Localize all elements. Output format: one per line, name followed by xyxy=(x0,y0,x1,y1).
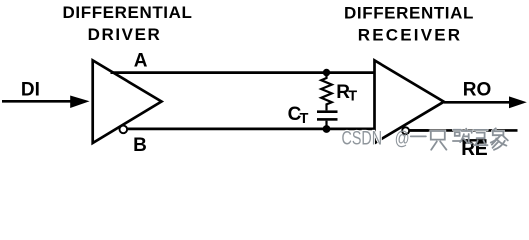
label RE (overlined) xyxy=(462,139,486,141)
svg-text:@: @ xyxy=(395,129,410,150)
svg-text:T: T xyxy=(348,88,357,104)
wire A (top line) xyxy=(111,71,375,74)
title: DIFFERENTIAL RECEIVER xyxy=(344,3,474,44)
driver U1 (triangle) xyxy=(93,60,162,143)
watermark: gray ink layer xyxy=(342,128,508,150)
wire RO output xyxy=(444,101,510,104)
svg-text:DI: DI xyxy=(21,79,40,100)
svg-text:T: T xyxy=(300,111,309,127)
arrowhead DI xyxy=(70,96,89,109)
svg-text:DIFFERENTIAL: DIFFERENTIAL xyxy=(63,3,193,22)
node junction dot on B xyxy=(323,125,331,133)
svg-text:A: A xyxy=(134,50,148,71)
arrowhead RO xyxy=(509,96,527,108)
watermark: white halo layer xyxy=(342,128,508,150)
wire cap to B node xyxy=(325,121,327,129)
title: DIFFERENTIAL DRIVER xyxy=(63,3,193,44)
wire DI input xyxy=(2,100,72,103)
label RE overline (redrawn) xyxy=(462,139,486,141)
svg-text:RO: RO xyxy=(463,79,492,100)
capacitor CT plates xyxy=(317,110,338,113)
node junction dot on A xyxy=(323,69,330,76)
wire RE enable xyxy=(409,129,518,132)
bubble on driver output B xyxy=(120,126,128,134)
svg-text:DIFFERENTIAL: DIFFERENTIAL xyxy=(344,3,474,22)
resistor RT (zigzag) xyxy=(321,73,332,111)
wire B (bottom line) xyxy=(127,127,374,130)
svg-text:DRIVER: DRIVER xyxy=(88,25,162,44)
receiver U2 (triangle) xyxy=(375,60,444,143)
svg-text:CSDN: CSDN xyxy=(342,129,383,150)
bubble on receiver enable (redrawn) xyxy=(402,127,409,134)
wire RE enable left stub (redrawn) xyxy=(409,129,428,132)
svg-text:RECEIVER: RECEIVER xyxy=(358,26,463,45)
svg-text:B: B xyxy=(133,135,147,156)
bubble on receiver enable xyxy=(402,127,409,134)
